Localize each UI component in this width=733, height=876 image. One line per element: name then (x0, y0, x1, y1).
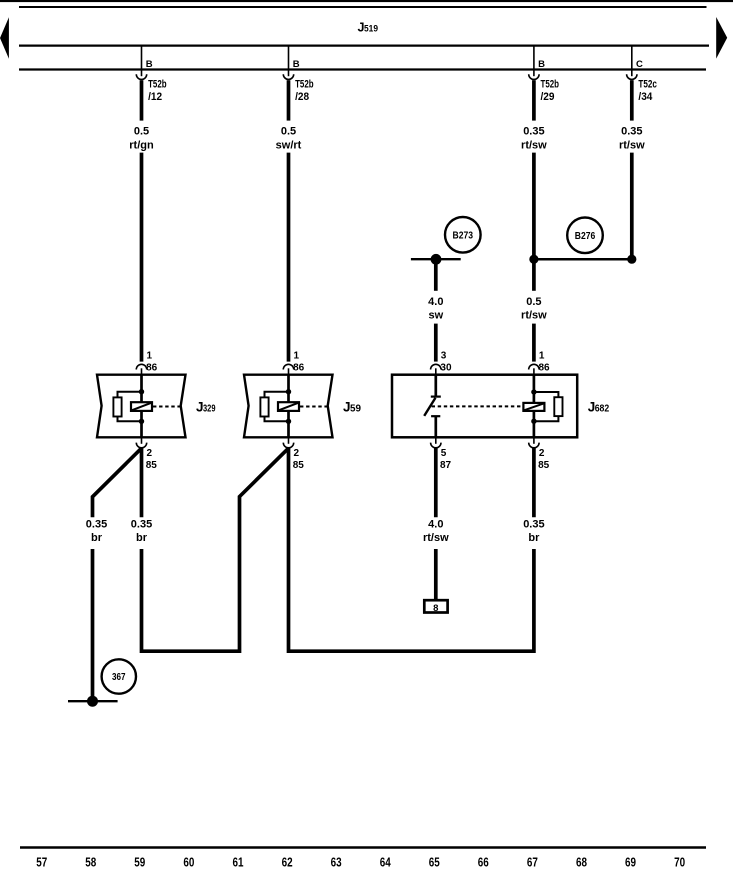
connector symbol T52b/12 (136, 74, 146, 79)
relay J329 box outline (97, 375, 186, 438)
pin 3 stub of J682 (435, 368, 437, 374)
svg-text:rt/sw: rt/sw (521, 310, 547, 322)
coil wire inside J682 (533, 375, 536, 438)
resistor body of J682 (554, 397, 562, 416)
svg-text:sw/rt: sw/rt (276, 139, 302, 151)
wire rt/sw from J682 pin 5 (434, 447, 438, 517)
junction dot bottom of coil J59 (286, 419, 291, 424)
junction dot top of coil J329 (139, 389, 144, 394)
junction dot left of B276 (529, 255, 538, 264)
wire continuation marker 8 (424, 600, 447, 612)
wire from connector T52b/28 down (287, 80, 291, 120)
svg-text:2: 2 (147, 448, 153, 459)
pin 3 connector arc of J682 (431, 364, 441, 369)
svg-text:3: 3 (441, 351, 447, 362)
pin 1 stub of J682 (533, 368, 535, 374)
wire value label 0.35 br (ground branch) (86, 518, 107, 544)
wire value label 0.35 br (J682 branch) (523, 518, 544, 544)
parallel resistor branch of J59 (265, 392, 289, 422)
svg-text:86: 86 (146, 363, 158, 374)
bus bar continuation arrow left (0, 17, 9, 59)
svg-text:85: 85 (293, 460, 305, 471)
wire value label 0.5 rt/sw (521, 296, 547, 322)
pin number 2 / terminal 85 of J59 (293, 448, 305, 471)
ground terminal bar 367 (68, 700, 118, 702)
relay winding of J59 (278, 402, 299, 411)
wire from connector T52b/12 down (140, 80, 144, 120)
svg-text:T52b: T52b (295, 78, 314, 90)
switch top contact bar of J682 (431, 396, 441, 398)
svg-text:367: 367 (112, 672, 126, 683)
connection B273 circle (445, 217, 481, 253)
svg-text:86: 86 (539, 363, 551, 374)
component label J682 (588, 400, 610, 415)
svg-text:2: 2 (539, 448, 545, 459)
pin 1 stub of J59 (288, 368, 290, 374)
wire value label 0.35 br (131, 518, 152, 544)
svg-text:0.5: 0.5 (526, 296, 541, 308)
svg-text:B276: B276 (575, 231, 596, 242)
svg-text:B: B (293, 59, 300, 70)
svg-text:57: 57 (36, 854, 47, 869)
svg-text:0.35: 0.35 (621, 126, 642, 138)
svg-text:69: 69 (625, 854, 636, 869)
svg-text:T52b: T52b (148, 78, 167, 90)
wire value label 4.0 sw (428, 296, 443, 322)
connection B276 circle (567, 218, 603, 254)
pin 2 connector arc of J682 (529, 443, 539, 448)
pin number 1 / terminal 86 of J329 (146, 351, 158, 374)
connector label T52b/28 (295, 78, 314, 103)
svg-text:30: 30 (440, 363, 452, 374)
bus bar line 1 (19, 44, 709, 46)
svg-text:1: 1 (147, 351, 153, 362)
wire tick from bus to connector at track x=288.5 (288, 46, 290, 77)
svg-text:64: 64 (380, 854, 392, 869)
actuation dashed link of J59 (300, 406, 328, 408)
switch bottom contact of J682 (431, 415, 440, 417)
svg-text:br: br (91, 532, 103, 544)
svg-text:0.35: 0.35 (131, 518, 152, 530)
actuation dashed link of J682 (432, 405, 524, 407)
svg-text:68: 68 (576, 854, 587, 869)
svg-text:0.35: 0.35 (523, 518, 544, 530)
control unit J519 box top edge (19, 6, 707, 8)
svg-text:/34: /34 (638, 91, 653, 103)
actuation dashed link of J329 (153, 406, 181, 408)
wire value label 0.35 rt/sw (619, 126, 645, 152)
wire sw down to J682 pin 3 (434, 324, 438, 362)
svg-text:65: 65 (429, 854, 440, 869)
wire rt/sw from bus tap C down to node at B276 (630, 153, 634, 260)
pin 1 connector arc of J329 (136, 364, 146, 369)
pin 1 connector arc of J682 (529, 364, 539, 369)
svg-text:0.5: 0.5 (281, 126, 296, 138)
resistor body of J329 (113, 397, 121, 416)
wire br corner to riser joining J59 pin 2 (142, 448, 289, 651)
pin number 2 / terminal 85 of J682 (538, 448, 550, 471)
svg-text:85: 85 (146, 460, 158, 471)
pin 2 stub of J682 (533, 437, 535, 444)
svg-text:5: 5 (441, 448, 447, 459)
parallel resistor branch of J682 (534, 392, 559, 421)
resistor body of J59 (260, 397, 268, 416)
wire br from J329 pin 2 diagonal to ground column (93, 448, 142, 517)
svg-text:4.0: 4.0 (428, 518, 443, 530)
svg-text:1: 1 (294, 351, 300, 362)
pin 2 connector arc of J59 (283, 443, 293, 448)
pin 1 stub of J329 (141, 368, 143, 374)
switch feed wire inside J682 (434, 375, 437, 396)
svg-text:60: 60 (183, 854, 194, 869)
svg-text:58: 58 (85, 854, 96, 869)
svg-text:rt/gn: rt/gn (129, 139, 154, 151)
node wire joining columns at B276 (534, 258, 632, 261)
pin number 2 / terminal 85 of J329 (146, 448, 158, 471)
component label J519 (358, 21, 379, 35)
pin number 1 / terminal 86 of J59 (293, 351, 305, 374)
bus bar continuation arrow right (716, 17, 727, 59)
junction dot bottom of coil J329 (139, 419, 144, 424)
wire value label 0.5 rt/gn (129, 126, 154, 152)
wire br from J329 pin 2 straight down (140, 447, 144, 517)
wire br down to ground point 367 (91, 549, 95, 703)
svg-text:2: 2 (294, 448, 300, 459)
svg-text:4.0: 4.0 (428, 296, 443, 308)
svg-text:329: 329 (203, 404, 216, 415)
relay winding of J682 (523, 403, 544, 411)
connector label T52b/12 (148, 78, 167, 103)
coil wire inside J329 (140, 375, 143, 438)
component label J59 (343, 400, 361, 415)
B273 terminal bar (411, 258, 461, 260)
wire from connector T52b/29 down (532, 80, 536, 120)
svg-text:0.35: 0.35 (523, 126, 544, 138)
connector label T52b/29 (541, 78, 560, 103)
svg-text:0.5: 0.5 (134, 126, 149, 138)
ground designation circle 367 (102, 659, 136, 693)
pin number 3 / terminal 30 of J682 (440, 351, 452, 374)
wire value label 0.35 rt/sw (521, 126, 547, 152)
ground junction dot (87, 696, 98, 707)
junction dot top of coil J59 (286, 389, 291, 394)
pin number 1 / terminal 86 of J682 (539, 351, 551, 374)
svg-text:519: 519 (364, 24, 378, 35)
svg-text:59: 59 (350, 404, 361, 415)
svg-text:br: br (136, 532, 148, 544)
current track ruler line (20, 846, 706, 849)
bus bar line 2 (19, 68, 706, 70)
wire value label 4.0 rt/sw (423, 518, 449, 544)
svg-text:0.35: 0.35 (86, 518, 107, 530)
wire br from J59 pin 2 down and across to J682 pin 2 (289, 447, 534, 651)
svg-text:1: 1 (539, 351, 545, 362)
svg-text:B273: B273 (453, 230, 474, 241)
junction dot right of B276 (627, 255, 636, 264)
svg-text:C: C (636, 59, 643, 70)
svg-text:682: 682 (595, 404, 610, 415)
connector label T52c/34 (638, 78, 657, 103)
wire rt/sw down to node at B276 (532, 153, 536, 261)
pin number 5 / terminal 87 of J682 (440, 448, 452, 471)
coil wire inside J59 (287, 375, 290, 438)
svg-text:70: 70 (674, 854, 685, 869)
svg-text:rt/sw: rt/sw (619, 139, 645, 151)
svg-text:/29: /29 (541, 91, 555, 103)
svg-text:sw: sw (428, 310, 443, 322)
svg-text:85: 85 (538, 460, 550, 471)
wire rt/sw down to J682 pin 1 (532, 262, 536, 291)
svg-text:86: 86 (293, 363, 305, 374)
pin 2 connector arc of J329 (136, 443, 146, 448)
svg-text:62: 62 (282, 854, 293, 869)
svg-text:/28: /28 (295, 91, 309, 103)
svg-text:T52c: T52c (638, 78, 657, 90)
svg-text:63: 63 (331, 854, 342, 869)
connector symbol T52b/28 (283, 74, 293, 79)
svg-text:8: 8 (433, 603, 438, 614)
connector symbol T52b/29 (529, 74, 539, 79)
svg-text:rt/sw: rt/sw (423, 532, 449, 544)
svg-text:/12: /12 (148, 91, 162, 103)
junction dot bottom of J682 coil (531, 419, 536, 424)
page top border (0, 0, 733, 2)
wire tick from bus to connector at track x=141.5 (141, 46, 143, 77)
wire from connector T52c/34 down (630, 80, 634, 120)
svg-text:rt/sw: rt/sw (521, 139, 547, 151)
connector symbol T52c/34 (627, 74, 637, 79)
svg-text:59: 59 (134, 854, 145, 869)
svg-text:61: 61 (233, 854, 244, 869)
relay J682 box outline (392, 375, 577, 438)
component label J329 (196, 400, 216, 415)
wire rt/sw down to continuation marker (434, 549, 438, 600)
wire br from J682 pin 2 (532, 447, 536, 517)
svg-text:T52b: T52b (541, 78, 560, 90)
wire rt/gn down to J329 pin 1 (140, 153, 144, 362)
svg-text:66: 66 (478, 854, 489, 869)
pin 1 connector arc of J59 (283, 364, 293, 369)
switch blade of J682 (424, 398, 435, 416)
wire value label 0.5 sw/rt (276, 126, 302, 152)
svg-text:br: br (528, 532, 540, 544)
pin 2 stub of J59 (288, 437, 290, 444)
wire tick from bus to connector at track x=533.9 (533, 46, 535, 77)
svg-text:B: B (538, 59, 545, 70)
relay winding of J329 (131, 402, 152, 411)
svg-text:87: 87 (440, 460, 452, 471)
pin 5 stub of J682 (435, 437, 437, 444)
pin 2 stub of J329 (141, 437, 143, 444)
junction dot on B273 bar (431, 254, 442, 265)
svg-text:B: B (146, 59, 153, 70)
relay J59 box outline (244, 375, 333, 438)
parallel resistor branch of J329 (118, 392, 142, 422)
wire sw/rt down to J59 pin 1 (287, 153, 291, 362)
junction dot top of J682 coil (531, 389, 536, 394)
wire sw from B273 down (434, 259, 438, 291)
wire tick from bus to connector at track x=631.8 (631, 46, 633, 77)
pin 5 connector arc of J682 (431, 443, 441, 448)
svg-text:67: 67 (527, 854, 538, 869)
